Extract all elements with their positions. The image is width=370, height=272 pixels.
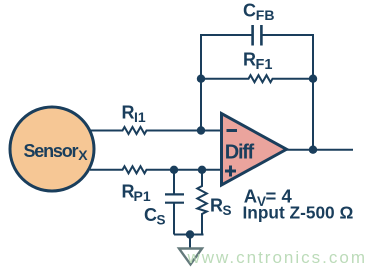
svg-text:C: C <box>144 205 157 225</box>
svg-text:F1: F1 <box>256 57 273 73</box>
svg-text:Input Z-500 Ω: Input Z-500 Ω <box>243 203 354 223</box>
svg-text:P1: P1 <box>134 188 151 204</box>
svg-text:Sensor: Sensor <box>24 141 79 161</box>
svg-text:FB: FB <box>256 7 275 23</box>
svg-text:C: C <box>243 1 256 21</box>
svg-text:I1: I1 <box>134 109 146 125</box>
svg-text:S: S <box>223 203 232 218</box>
svg-text:www.cntronics.com: www.cntronics.com <box>187 248 367 267</box>
svg-text:S: S <box>157 212 166 227</box>
svg-text:X: X <box>78 147 88 163</box>
svg-text:R: R <box>210 196 223 216</box>
svg-text:R: R <box>122 102 135 122</box>
svg-text:Diff: Diff <box>225 141 255 163</box>
svg-text:R: R <box>243 50 256 70</box>
